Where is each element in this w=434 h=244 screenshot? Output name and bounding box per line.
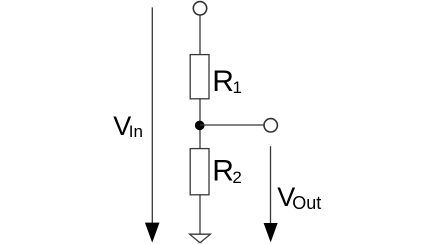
wire node to output terminal [200, 124, 264, 126]
wire V_Out arrow shaft [270, 146, 272, 224]
svg-text:R: R [212, 155, 234, 188]
label R1 [212, 65, 242, 98]
wire R1 to R2 [199, 99, 201, 149]
ground [190, 234, 211, 243]
V_Out arrowhead [264, 223, 278, 242]
wire terminal to R1 [199, 16, 201, 55]
svg-text:2: 2 [232, 168, 241, 187]
svg-text:1: 1 [233, 78, 242, 97]
wire R2 to ground [199, 195, 201, 234]
node output terminal [264, 119, 277, 132]
svg-text:In: In [129, 122, 143, 141]
V_In arrowhead [145, 223, 160, 243]
resistor R2 [190, 149, 209, 195]
svg-text:R: R [212, 65, 234, 98]
svg-text:Out: Out [292, 193, 321, 213]
label R2 [212, 155, 242, 188]
node top terminal [193, 2, 206, 15]
resistor R1 [190, 55, 209, 99]
label V_Out [277, 182, 321, 213]
label V_In [113, 111, 143, 141]
wire V_In arrow shaft [151, 7, 153, 224]
node junction dot [195, 121, 205, 131]
